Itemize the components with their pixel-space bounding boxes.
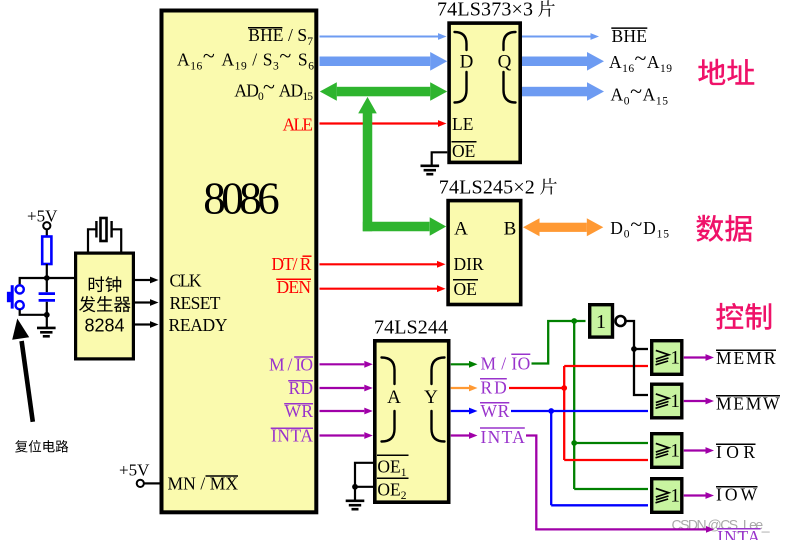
wire INTA net to bottom [526,436,706,530]
node B junction [44,312,50,318]
svg-text:1: 1 [596,311,606,333]
wire IOW out [684,494,706,496]
svg-text:1: 1 [670,391,680,412]
74LS373 Q bracket [504,32,516,103]
svg-text:74LS373×3: 74LS373×3 [437,0,533,21]
wire 8284 CLK to 8086 [135,279,150,281]
wire RD to MEMR gate [564,365,648,367]
or-gate G4 IOW label [656,488,669,497]
74LS244 Y bracket [432,358,445,442]
wire WR to IOW gate [551,504,648,506]
svg-text:Y: Y [424,387,438,408]
wire black to MEMR gate [634,348,648,350]
annotation arrow to reset circuit [22,341,33,422]
wire RD vertical [563,366,565,460]
wire M/IO net to inverter [532,321,586,364]
svg-text:74LS245×2: 74LS245×2 [439,176,535,198]
wire R1 to node A [46,264,48,278]
header text control [716,303,771,330]
svg-text:A: A [387,387,401,408]
svg-text:READY: READY [169,315,228,335]
svg-text:8086: 8086 [203,174,279,224]
svg-text:INTA: INTA [481,427,526,447]
svg-text:BHE: BHE [612,26,648,46]
svg-text:8284: 8284 [84,316,124,336]
svg-text:74LS244: 74LS244 [374,316,448,338]
svg-text:+5V: +5V [119,461,150,480]
wire 244 M/IO out [451,363,469,365]
wire WR to 244 [320,410,365,412]
svg-text:CLK: CLK [170,270,202,290]
node M/IO junction at IOR branch [571,440,577,446]
bus A0-A15 out [522,87,587,97]
wire 373 BHE out [522,36,591,38]
node black junction [631,346,637,352]
or-gate G2 MEMW label [656,394,669,403]
svg-text:DIR: DIR [454,254,484,274]
bus AD branch to 245 [363,222,430,232]
wire DEN to 245 OE [320,288,438,290]
svg-text:RESET: RESET [170,293,221,313]
svg-text:1: 1 [670,441,680,462]
crystal Y1 [95,221,97,238]
svg-text:D: D [460,52,474,73]
svg-text:1: 1 [670,348,680,369]
wire M/IO to IOW gate [574,488,648,490]
bus A16-A19/S3-S6 to 373 [320,57,431,67]
transceiver U3 74LS245 body [448,201,521,305]
ground at 373 OE [432,152,448,165]
wire 244 WR out [451,410,469,412]
svg-text:OE: OE [452,141,475,161]
push button S1 [16,285,24,293]
bus A16-A19 out [522,57,587,67]
wire 8284 RESET to 8086 [135,301,150,303]
wire 244 INTA out [451,434,469,436]
wire DT/R to 245 DIR [320,263,438,265]
or-gate G4 IOW body [652,479,682,513]
node RD junction [561,385,567,391]
wire M/IO vertical branch [573,321,575,489]
node M/IO junction at inverter input [571,318,577,324]
wire +5V to MN/MX [144,482,160,484]
wire IOR out [684,449,706,451]
or-gate G1 MEMR label [656,350,669,359]
wire node A to button [20,278,47,285]
wire RD net horizontal [509,387,564,389]
or-gate G1 MEMR body [652,341,682,375]
wire INTA to 244 [320,434,365,436]
node WR junction [548,408,554,414]
header text data [696,215,752,242]
wire 244 RD out [451,387,469,389]
inverter U6 body [590,305,613,337]
CPU U1 8086 body [162,11,317,513]
wire MEMW out [684,400,706,402]
wire button to node B [20,309,47,315]
svg-text:M / IO: M / IO [481,354,531,374]
svg-text:LE: LE [452,114,473,134]
or-gate G2 MEMW body [652,384,682,418]
or-gate G3 IOR label [656,443,669,452]
8284 text line1 [89,276,122,292]
svg-text:WR: WR [481,401,510,421]
wire M/IO to IOR gate [574,442,648,444]
svg-text:Q: Q [498,52,512,73]
or-gate G3 IOR body [652,434,682,468]
clock generator U4 8284 body [76,253,134,359]
svg-text:MEMR: MEMR [716,348,776,368]
wire BHE/S7 to 373 [320,36,439,38]
svg-text:A: A [454,219,468,240]
bus D0-D15 [540,223,587,232]
wire node A to 8284 [47,277,74,279]
wire RD to IOR gate [564,459,648,461]
annotation text reset circuit [15,440,68,453]
wire WR vertical [550,411,552,505]
svg-text:+5V: +5V [27,207,58,226]
74LS373 D bracket [455,32,467,103]
resistor R1 [42,237,51,265]
svg-text:B: B [504,219,517,240]
wire WR net to MEMW gate [511,410,648,412]
svg-text:ALE: ALE [283,114,313,134]
node A junction [44,275,50,281]
capacitor C1 [46,278,48,292]
wire MEMR out [684,356,706,358]
inverter U6 output bubble [616,316,626,326]
wire RD to 244 [320,387,365,389]
buffer U5 74LS244 body [375,341,449,502]
wire 8284 READY to 8086 [135,323,150,325]
svg-text:DEN: DEN [277,277,312,297]
wire ALE to 373 LE [320,122,439,124]
wire inverter to gates black [626,321,648,395]
wire M/IO to 244 [320,363,365,365]
8284 text line2 [79,296,131,312]
svg-text:1: 1 [670,486,680,507]
svg-text:OE: OE [454,279,477,299]
latch U2 74LS373 body [449,23,520,162]
svg-text:RD: RD [481,377,507,397]
wire +5V to R1 [46,229,48,236]
bus AD0-AD15 CPU to 373 [337,87,430,97]
ground (reset circuit) [46,315,48,328]
ground at 244 OE1/OE2 [355,463,373,500]
74LS244 A bracket [382,358,395,442]
header text address [698,59,754,85]
svg-text:MEMW: MEMW [716,394,780,414]
